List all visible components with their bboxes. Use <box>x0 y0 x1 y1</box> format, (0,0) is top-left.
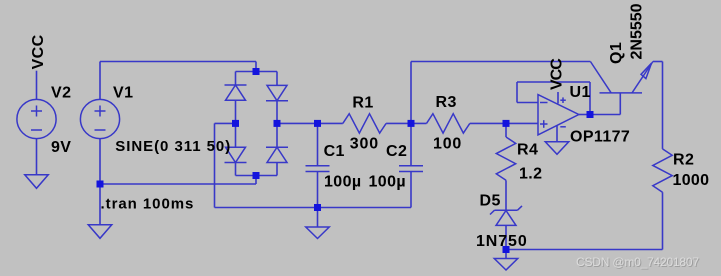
svg-text:D5: D5 <box>480 192 501 209</box>
svg-text:VCC: VCC <box>549 58 566 90</box>
svg-text:VCC: VCC <box>30 34 47 69</box>
svg-text:100µ: 100µ <box>324 174 362 191</box>
svg-text:1N750: 1N750 <box>476 233 528 250</box>
svg-text:C1: C1 <box>324 143 345 160</box>
svg-text:1000: 1000 <box>673 172 710 189</box>
svg-text:V1: V1 <box>113 85 133 102</box>
svg-text:R3: R3 <box>436 94 457 111</box>
svg-text:1.2: 1.2 <box>519 166 542 183</box>
svg-text:300: 300 <box>350 136 379 153</box>
svg-text:Q1: Q1 <box>608 42 625 64</box>
svg-text:R2: R2 <box>673 152 694 169</box>
svg-text:C2: C2 <box>386 143 407 160</box>
svg-text:CSDN @m0_74201807: CSDN @m0_74201807 <box>576 255 699 269</box>
svg-text:SINE(0 311 50): SINE(0 311 50) <box>115 138 231 155</box>
svg-text:OP1177: OP1177 <box>570 129 630 146</box>
svg-text:100: 100 <box>433 136 462 153</box>
svg-text:.tran 100ms: .tran 100ms <box>101 196 195 213</box>
svg-text:9V: 9V <box>51 139 71 156</box>
svg-text:100µ: 100µ <box>369 174 407 191</box>
svg-text:R1: R1 <box>352 95 373 112</box>
svg-text:2N5550: 2N5550 <box>629 3 646 59</box>
svg-text:U1: U1 <box>570 84 591 101</box>
svg-text:V2: V2 <box>51 85 71 102</box>
svg-text:R4: R4 <box>517 142 538 159</box>
